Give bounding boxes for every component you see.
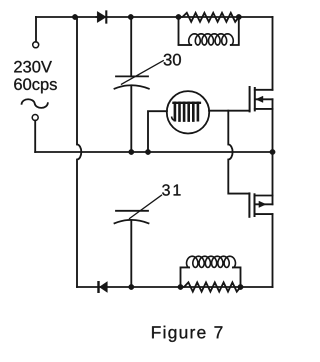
- wire top-right rail down to Q1 drain: [272, 17, 274, 90]
- label 60cps: [14, 78, 57, 93]
- AC tilde symbol: [22, 99, 48, 108]
- transistor Q1 gate bar: [249, 87, 251, 111]
- transistor Q1 body lead: [256, 98, 273, 100]
- wire bottom horizontal bus: [77, 286, 273, 288]
- diode D1 triangle: [97, 11, 106, 22]
- diode D1 leads: [97, 16, 107, 18]
- capacitor 30 curved plate: [115, 85, 149, 88]
- transistor Q1 channel bar: [254, 88, 256, 110]
- junction node R2L2 left: [178, 284, 183, 289]
- junction node mid right rail: [270, 149, 275, 154]
- wire mid horizontal bus: [35, 151, 272, 153]
- wire capacitor rail upper: [130, 17, 132, 76]
- gas tube V1 envelope: [167, 91, 209, 133]
- wire inductor L2 right stub: [233, 267, 241, 287]
- label 30: [164, 54, 181, 66]
- junction node bottom cap rail: [129, 284, 134, 289]
- wire lower terminal to mid bus: [34, 121, 36, 153]
- capacitor 31 leader line: [130, 195, 162, 218]
- capacitor 31 curved plate: [115, 220, 149, 223]
- transistor Q2 body lead: [255, 203, 273, 205]
- gas tube V1 grid foot: [172, 117, 175, 120]
- wire tube right lead to Q1 gate: [209, 110, 250, 112]
- wire capacitor rail middle: [130, 86, 132, 152]
- wire top-left stub to terminal: [35, 17, 37, 42]
- inductor L1 coil: [179, 44, 192, 46]
- wire inductor L1 right stub: [231, 17, 239, 45]
- transistor Q1 drain lead: [255, 89, 273, 91]
- wire top horizontal bus: [36, 16, 273, 18]
- junction node top cap rail: [128, 14, 133, 19]
- wire Q1 source rail to mid bus: [272, 99, 274, 152]
- wire capacitor rail lower: [130, 220, 132, 287]
- label 230V: [14, 61, 52, 73]
- resistor R2 zigzag: [181, 282, 241, 291]
- transistor Q2 channel bar: [254, 194, 256, 216]
- junction node tube lead: [145, 149, 150, 154]
- terminal upper input: [33, 42, 39, 48]
- transistor Q2 source lead: [255, 213, 273, 215]
- diode D2 triangle: [99, 282, 107, 293]
- capacitor 30 top plate: [116, 75, 148, 77]
- transistor Q2 body arrow: [259, 201, 266, 207]
- wire resistor R1 left stub: [178, 17, 180, 44]
- diode D1 cathode bar: [105, 11, 107, 22]
- junction node mid cap rail: [129, 149, 134, 154]
- transistor Q1 source lead: [255, 108, 273, 110]
- wire mid bus to Q2 drain rail: [272, 152, 274, 204]
- junction node top-left rail: [72, 14, 77, 19]
- transistor Q1 body arrow: [256, 96, 263, 102]
- label 31: [162, 184, 180, 195]
- wire left rail with hop over mid bus: [75, 17, 81, 287]
- junction node R1L1 left: [176, 14, 181, 19]
- diode D2 cathode bar: [98, 281, 100, 293]
- wire inductor L2 left stub: [181, 267, 190, 287]
- capacitor 31 top plate: [116, 210, 148, 212]
- wire gate rail with hop to Q2 gate: [228, 111, 249, 194]
- junction node R2L2 right: [238, 284, 243, 289]
- terminal lower input: [32, 115, 38, 121]
- resistor R1 zigzag: [179, 13, 239, 22]
- wire Q2 source rail to bottom bus: [272, 214, 274, 287]
- wire tube left lead: [148, 111, 167, 152]
- gas tube V1 grid top bar: [174, 102, 200, 104]
- transistor Q2 gate bar: [248, 193, 250, 216]
- junction node R1L1 right: [236, 14, 241, 19]
- transistor Q2 drain lead: [255, 195, 273, 197]
- inductor L2 coil: [187, 256, 236, 267]
- caption Figure 7: [152, 326, 222, 342]
- gas tube V1 grid teeth: [175, 103, 198, 121]
- leader line to label 30: [122, 61, 164, 85]
